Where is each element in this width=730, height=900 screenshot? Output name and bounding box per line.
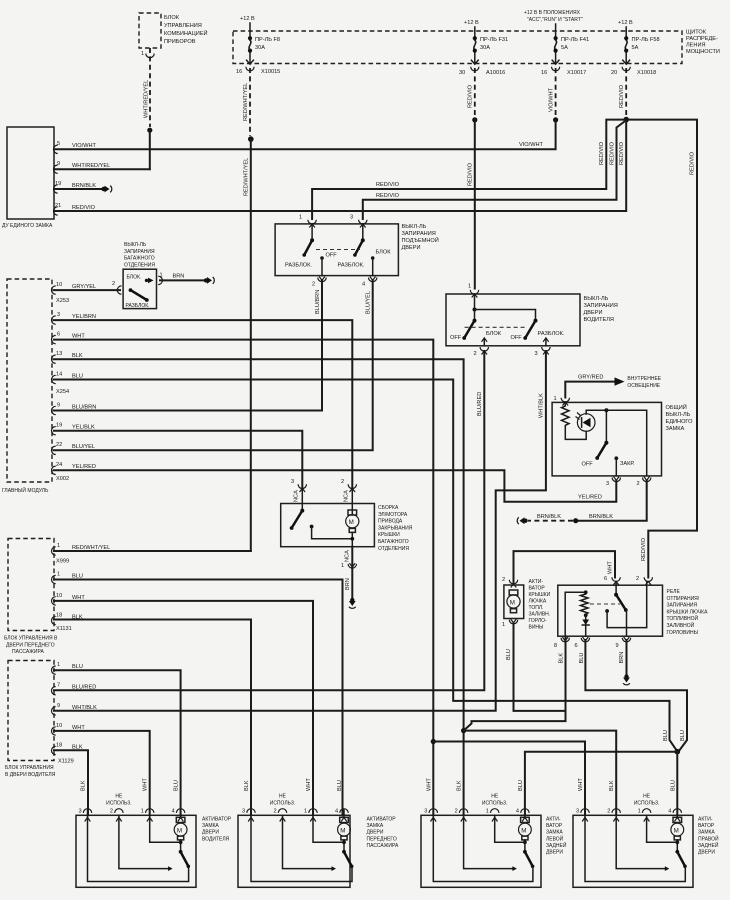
svg-text:ЗАПИРАНИЯ: ЗАПИРАНИЯ bbox=[402, 231, 436, 237]
trunk lock switch blade bbox=[126, 288, 150, 309]
svg-text:3: 3 bbox=[291, 479, 294, 485]
svg-text:РАЗБЛОК.: РАЗБЛОК. bbox=[538, 331, 565, 337]
driver door lock actuator box bbox=[76, 815, 232, 887]
svg-text:ДВЕРИ: ДВЕРИ bbox=[546, 850, 563, 856]
svg-text:1: 1 bbox=[299, 215, 302, 221]
wire BLK X1131 pin 18 to front passenger actuator pin 3 bbox=[54, 620, 251, 816]
svg-text:ОТДЕЛЕНИЯ: ОТДЕЛЕНИЯ bbox=[378, 546, 409, 552]
svg-text:BLU: BLU bbox=[174, 780, 180, 791]
svg-text:ЕДИНОГО: ЕДИНОГО bbox=[666, 419, 694, 425]
svg-text:3: 3 bbox=[57, 312, 60, 318]
svg-text:NCA: NCA bbox=[345, 550, 351, 562]
main module box (dashed) bbox=[2, 279, 52, 494]
svg-text:VIO/WHT: VIO/WHT bbox=[548, 87, 554, 112]
svg-text:ИСПОЛЬЗ.: ИСПОЛЬЗ. bbox=[106, 800, 132, 806]
svg-text:ВАТОР: ВАТОР bbox=[529, 586, 546, 592]
wire RED/VIO dashed feed from X10018 bbox=[619, 68, 626, 117]
svg-text:ДВЕРИ: ДВЕРИ bbox=[584, 310, 603, 316]
X1129 pin 7 BLU/RED bbox=[51, 683, 96, 695]
instrument cluster control module (dashed box) bbox=[139, 13, 208, 48]
driver switch RAZBLOK contact bbox=[538, 331, 565, 346]
svg-text:РАЗБЛОК.: РАЗБЛОК. bbox=[285, 263, 312, 269]
trunk assembly motor bbox=[346, 510, 359, 547]
node BLU junction bbox=[675, 749, 681, 755]
svg-text:9: 9 bbox=[57, 161, 60, 167]
svg-text:3: 3 bbox=[535, 351, 538, 357]
relay diode bbox=[582, 615, 589, 636]
relay coil bbox=[565, 590, 588, 636]
driver switch pin 2 bbox=[474, 347, 489, 357]
svg-text:ЗАЛИВНОЙ: ЗАЛИВНОЙ bbox=[667, 621, 695, 629]
wire GRY/RED from master switch pin 1 to interior lighting bbox=[565, 375, 662, 398]
front passenger door lock actuator motor bbox=[338, 815, 351, 852]
svg-text:ПАССАЖИРА: ПАССАЖИРА bbox=[12, 649, 44, 655]
svg-text:BLU: BLU bbox=[663, 730, 669, 741]
svg-text:BLU: BLU bbox=[72, 664, 83, 670]
relay pin 9 (bottom BRN) bbox=[616, 637, 631, 664]
driver switch mechanical link (dashed) bbox=[465, 326, 527, 328]
svg-text:RED/WHT/YEL: RED/WHT/YEL bbox=[244, 158, 250, 196]
front passenger door lock actuator switch blade bbox=[342, 850, 353, 868]
front passenger door lock actuator pin 3 bbox=[242, 780, 255, 821]
svg-text:ВЫКЛ-ЛЬ: ВЫКЛ-ЛЬ bbox=[402, 224, 427, 230]
svg-text:9: 9 bbox=[616, 643, 619, 649]
svg-text:КРЫШКИ ЛЮЧКА: КРЫШКИ ЛЮЧКА bbox=[667, 609, 709, 615]
driver door lock actuator pin 2 bbox=[110, 809, 123, 822]
svg-text:RED/VIO: RED/VIO bbox=[619, 84, 625, 108]
main module pin 14 BLU bbox=[51, 372, 82, 384]
X999 pin 1 RED/WHT/YEL bbox=[51, 543, 250, 565]
node BRN/BLK splice bbox=[573, 518, 578, 523]
left rear door lock actuator internal wire pin 2 open contact bbox=[464, 815, 517, 871]
right rear door lock actuator box bbox=[573, 815, 719, 887]
ground at DU pin 19 bbox=[101, 186, 112, 193]
connector A10016 pin 30 bbox=[459, 60, 505, 76]
svg-text:1: 1 bbox=[141, 809, 144, 815]
svg-text:WHT: WHT bbox=[143, 778, 149, 791]
svg-text:16: 16 bbox=[236, 69, 242, 75]
svg-text:БЛОК.: БЛОК. bbox=[127, 275, 142, 281]
wire WHT branch to right rear actuator pin 3 bbox=[433, 742, 585, 816]
svg-text:BLK: BLK bbox=[81, 780, 87, 791]
wire GRY/YEL main module pin 10 to trunk lock switch pin 2 bbox=[54, 289, 120, 291]
svg-text:+12 В: +12 В bbox=[464, 20, 479, 26]
svg-text:ПРИБОРОВ: ПРИБОРОВ bbox=[164, 39, 196, 45]
svg-text:BRN: BRN bbox=[345, 578, 351, 590]
svg-text:ДВЕРИ ПЕРЕДНЕГО: ДВЕРИ ПЕРЕДНЕГО bbox=[6, 642, 55, 648]
svg-text:НЕ: НЕ bbox=[643, 794, 651, 800]
svg-text:6: 6 bbox=[57, 332, 60, 338]
svg-text:3: 3 bbox=[606, 481, 609, 487]
svg-text:УПРАВЛЕНИЯ: УПРАВЛЕНИЯ bbox=[164, 23, 202, 29]
wire BLK main pin 13 to rear actuators pin 2 bbox=[54, 359, 464, 815]
wire BLU X1129 pin 1 to driver actuator pin 4 bbox=[54, 670, 181, 815]
wire YEL/BRN main pin 3 to trunk actuator pin 2 bbox=[54, 320, 352, 487]
fuel filler door release relay box bbox=[558, 585, 708, 636]
svg-text:BRN: BRN bbox=[619, 652, 625, 664]
svg-text:BLK: BLK bbox=[72, 353, 83, 359]
svg-text:BLU/BRN: BLU/BRN bbox=[72, 405, 96, 411]
svg-text:GRY/RED: GRY/RED bbox=[578, 375, 603, 381]
svg-text:M: M bbox=[177, 827, 182, 834]
wire RED/WHT/YEL solid feed down to X999 pin 1 bbox=[244, 139, 251, 551]
wire WHT/BLK X1129 pin 9 to driver's door switch pin 3 bbox=[54, 351, 546, 711]
pin 1 of instrument cluster bbox=[141, 51, 154, 58]
svg-text:7: 7 bbox=[57, 683, 60, 689]
svg-text:6: 6 bbox=[604, 576, 607, 582]
fuel actuator motor bbox=[507, 590, 520, 613]
svg-text:RED/VIO: RED/VIO bbox=[376, 193, 400, 199]
svg-text:ВАТОР: ВАТОР bbox=[546, 823, 563, 829]
wire WHT X1131 pin 10 to front passenger actuator pin 1 bbox=[54, 601, 313, 815]
svg-text:Х999: Х999 bbox=[56, 559, 69, 565]
svg-text:АКТИ-: АКТИ- bbox=[529, 579, 544, 585]
master switch LED wiring bbox=[565, 410, 646, 476]
svg-text:РАЗБЛОК.: РАЗБЛОК. bbox=[126, 303, 150, 309]
main module pin 3 YEL/BRN bbox=[52, 312, 96, 324]
svg-text:BLU/YEL: BLU/YEL bbox=[366, 291, 372, 314]
svg-text:18: 18 bbox=[56, 613, 62, 619]
svg-text:5А: 5А bbox=[632, 45, 639, 51]
liftgate switch pin 2 bbox=[312, 277, 326, 288]
driver switch blade right bbox=[511, 319, 538, 341]
svg-text:19: 19 bbox=[56, 423, 62, 429]
right rear door lock actuator pin 4 bbox=[668, 780, 681, 821]
main module pin 13 BLK bbox=[52, 351, 83, 363]
wire BRN relay pin 9 to ground bbox=[626, 640, 628, 674]
liftgate switch blade 1 bbox=[302, 238, 314, 256]
wire YEL/RED main pin 24 to master switch pin 3 bbox=[54, 470, 616, 502]
front passenger door control module box (dashed) bbox=[4, 539, 58, 656]
+12V feed label F58 bbox=[618, 20, 633, 31]
svg-text:30А: 30А bbox=[255, 45, 265, 51]
svg-text:BRN/BLK: BRN/BLK bbox=[589, 514, 613, 520]
svg-text:3: 3 bbox=[350, 215, 353, 221]
X1131 pin 18 BLK bbox=[51, 613, 82, 625]
wire BLK branch to right rear actuator pin 2 bbox=[464, 731, 617, 816]
svg-text:ЗАПИРАНИЯ: ЗАПИРАНИЯ bbox=[667, 603, 698, 609]
front passenger door lock actuator pin 4 bbox=[335, 780, 348, 821]
svg-text:OFF: OFF bbox=[326, 253, 338, 259]
left rear door lock actuator pin 2 bbox=[455, 780, 468, 821]
svg-text:ГОРЛО-: ГОРЛО- bbox=[529, 618, 548, 624]
liftgate switch pin 4 bbox=[362, 277, 377, 288]
wire BRN/BLK dashed to ground bbox=[528, 514, 573, 521]
svg-text:1: 1 bbox=[486, 809, 489, 815]
connector X10015 pin 16 bbox=[236, 60, 280, 75]
svg-text:BLU: BLU bbox=[337, 780, 343, 791]
relay pin 2 (top) bbox=[636, 576, 653, 585]
DU pin 9 WHT/RED/YEL bbox=[54, 161, 150, 173]
svg-text:КОМБИНАЦИЕЙ: КОМБИНАЦИЕЙ bbox=[164, 29, 208, 37]
svg-text:BLK: BLK bbox=[244, 780, 250, 791]
svg-text:WHT: WHT bbox=[306, 778, 312, 791]
svg-text:1: 1 bbox=[141, 51, 144, 57]
svg-text:BLU: BLU bbox=[506, 649, 512, 660]
svg-text:18: 18 bbox=[56, 743, 62, 749]
svg-text:RED/VIO: RED/VIO bbox=[72, 205, 96, 211]
svg-text:ЩИТОК: ЩИТОК bbox=[686, 30, 707, 36]
svg-text:BLK: BLK bbox=[609, 780, 615, 791]
left rear door lock actuator pin 4 bbox=[516, 780, 529, 821]
svg-text:4: 4 bbox=[516, 809, 519, 815]
svg-text:4: 4 bbox=[335, 809, 338, 815]
driver door lock actuator internal wire pin 1 to motor bbox=[150, 815, 181, 842]
left rear door lock actuator unused pin label bbox=[482, 794, 508, 807]
svg-text:30А: 30А bbox=[480, 45, 490, 51]
svg-text:ВИНЫ: ВИНЫ bbox=[529, 625, 545, 631]
svg-text:ОСВЕЩЕНИЕ: ОСВЕЩЕНИЕ bbox=[627, 383, 660, 389]
svg-text:2: 2 bbox=[274, 809, 277, 815]
wire WHT fuel actuator pin 2 to relay pin 6 bbox=[514, 551, 616, 584]
driver switch pin 1 bbox=[468, 284, 479, 310]
svg-text:M: M bbox=[349, 519, 354, 526]
svg-text:10: 10 bbox=[56, 723, 62, 729]
svg-text:Х10015: Х10015 bbox=[261, 69, 280, 75]
front passenger door lock actuator box bbox=[238, 815, 399, 887]
svg-text:9: 9 bbox=[57, 403, 60, 409]
wire BRN/BLK from master switch pin 2 bbox=[576, 480, 647, 520]
svg-text:GRY/YEL: GRY/YEL bbox=[72, 284, 96, 290]
svg-text:M: M bbox=[510, 599, 515, 606]
master switch blade bbox=[582, 408, 609, 467]
node BLK junction bbox=[461, 728, 466, 733]
svg-text:ВЫКЛ-ЛЬ: ВЫКЛ-ЛЬ bbox=[124, 242, 147, 248]
svg-text:БАГАЖНОГО: БАГАЖНОГО bbox=[124, 256, 155, 262]
svg-text:5: 5 bbox=[57, 141, 60, 147]
svg-text:OFF: OFF bbox=[511, 335, 523, 341]
liftgate switch BLOK contact bbox=[371, 250, 391, 276]
ground at BRN/BLK bbox=[517, 517, 528, 524]
node splice junction RED/VIO F58 bbox=[623, 117, 629, 123]
wire RED/VIO from DU pin 21 to F58 column bbox=[54, 120, 626, 211]
right rear door lock actuator motor bbox=[671, 815, 684, 852]
svg-text:ЗАМКА: ЗАМКА bbox=[202, 823, 219, 829]
front passenger door lock actuator pin 2 bbox=[274, 809, 287, 822]
left rear door lock actuator internal wire pin 1 to motor bbox=[495, 815, 525, 842]
svg-text:ОТДЕЛЕНИЯ: ОТДЕЛЕНИЯ bbox=[124, 262, 155, 268]
wire YEL/BLK main pin 19 to trunk actuator pin 3 bbox=[54, 431, 302, 487]
svg-text:ЗАКР.: ЗАКР. bbox=[620, 461, 635, 467]
ground below trunk assembly bbox=[349, 598, 356, 609]
liftgate switch OFF contact bbox=[320, 253, 337, 276]
wire BLU/YEL liftgate pin 4 to main module pin 22 bbox=[54, 280, 373, 450]
remote control unit DU box bbox=[2, 127, 54, 229]
fuse F41 5A bbox=[554, 31, 590, 64]
driver door lock actuator internal wire contact to pin 3 bbox=[88, 815, 189, 881]
X1131 pin 10 WHT bbox=[52, 593, 86, 605]
wire BLK branch to fuel door relay bbox=[464, 636, 566, 730]
svg-text:"АСС","RUN" И "START": "АСС","RUN" И "START" bbox=[527, 17, 583, 23]
front passenger door lock actuator pin 1 bbox=[304, 778, 317, 822]
svg-text:OFF: OFF bbox=[582, 462, 594, 468]
svg-text:BLU/YEL: BLU/YEL bbox=[72, 444, 95, 450]
svg-text:НЕ: НЕ bbox=[279, 794, 287, 800]
svg-text:NCA: NCA bbox=[294, 490, 300, 502]
svg-text:ЛЕВОЙ: ЛЕВОЙ bbox=[546, 834, 564, 842]
wire BLU/BRN liftgate pin 2 to main module pin 9 bbox=[54, 280, 322, 411]
svg-text:19: 19 bbox=[55, 181, 61, 187]
svg-text:Х10018: Х10018 bbox=[637, 70, 656, 76]
main module pin 10 GRY/YEL bbox=[52, 282, 97, 294]
master switch pin 2 bbox=[637, 477, 651, 488]
svg-text:8: 8 bbox=[554, 643, 557, 649]
trunk lock switch pin 1 bbox=[158, 273, 162, 285]
svg-text:2: 2 bbox=[502, 577, 505, 583]
node WHT junction bbox=[431, 739, 436, 744]
wire BLU/RED X1129 pin 7 to driver's door switch pin 2 bbox=[54, 351, 484, 690]
front passenger door lock actuator internal wire pin 2 open contact bbox=[283, 815, 337, 871]
driver switch blade left bbox=[450, 319, 477, 341]
svg-text:RED/VIO: RED/VIO bbox=[468, 84, 474, 108]
svg-text:ВОДИТЕЛЯ: ВОДИТЕЛЯ bbox=[584, 317, 614, 323]
svg-text:Х254: Х254 bbox=[56, 389, 69, 395]
svg-text:АКТИ-: АКТИ- bbox=[698, 817, 713, 823]
svg-text:NCA: NCA bbox=[344, 490, 350, 502]
svg-text:НЕ: НЕ bbox=[491, 794, 499, 800]
svg-text:ПРИВОДА: ПРИВОДА bbox=[378, 519, 403, 525]
front passenger door lock actuator internal wire contact to pin 3 bbox=[251, 815, 352, 881]
svg-text:ВЫКЛ-ЛЬ: ВЫКЛ-ЛЬ bbox=[666, 412, 691, 418]
svg-text:В ДВЕРИ ВОДИТЕЛЯ: В ДВЕРИ ВОДИТЕЛЯ bbox=[5, 772, 56, 778]
svg-text:1: 1 bbox=[554, 396, 557, 402]
svg-text:1: 1 bbox=[468, 284, 471, 290]
X1129 pin 1 BLU bbox=[51, 662, 82, 674]
svg-text:ДВЕРИ: ДВЕРИ bbox=[698, 850, 715, 856]
+12V feed label F8 bbox=[240, 16, 255, 31]
svg-text:3: 3 bbox=[576, 809, 579, 815]
relay switch blade bbox=[614, 582, 628, 637]
svg-text:3: 3 bbox=[242, 809, 245, 815]
svg-text:9: 9 bbox=[57, 703, 60, 709]
trunk assembly switch blade bbox=[290, 509, 305, 530]
liftgate switch blade 2 bbox=[353, 238, 365, 256]
left rear door lock actuator motor bbox=[519, 815, 532, 852]
svg-text:Х002: Х002 bbox=[56, 476, 69, 482]
fuse F31 30A bbox=[473, 31, 508, 64]
svg-text:ОТПИРАНИЯ/: ОТПИРАНИЯ/ bbox=[667, 596, 700, 602]
DU pin 5 VIO/WHT bbox=[54, 141, 97, 154]
right rear door lock actuator internal wire pin 1 to motor bbox=[647, 815, 678, 842]
trunk assembly switch contact bbox=[310, 525, 353, 539]
wire BLU fuel actuator pin 1 to relay pin 8 column bbox=[506, 623, 566, 711]
main module pin 24 YEL/RED bbox=[52, 462, 96, 475]
main module pin 22 BLU/YEL bbox=[52, 442, 96, 455]
right rear door lock actuator internal wire contact to pin 3 bbox=[585, 815, 685, 881]
svg-text:1: 1 bbox=[57, 662, 60, 668]
svg-text:ИСПОЛЬЗ.: ИСПОЛЬЗ. bbox=[482, 800, 508, 806]
svg-text:30: 30 bbox=[459, 70, 465, 76]
liftgate switch pin 3 bbox=[350, 215, 367, 241]
svg-text:ЗАМКА: ЗАМКА bbox=[367, 823, 384, 829]
svg-text:OFF: OFF bbox=[450, 335, 462, 341]
svg-text:КРЫШКИ: КРЫШКИ bbox=[529, 592, 551, 598]
svg-text:2: 2 bbox=[110, 809, 113, 815]
ground below relay bbox=[623, 674, 630, 685]
svg-text:ИСПОЛЬЗ.: ИСПОЛЬЗ. bbox=[270, 800, 296, 806]
svg-text:+12 В: +12 В bbox=[618, 20, 633, 26]
wire VIO/WHT from F41 down then left to DU pin 5 bbox=[54, 120, 556, 149]
svg-text:M: M bbox=[521, 827, 526, 834]
svg-text:2: 2 bbox=[607, 809, 610, 815]
svg-text:3: 3 bbox=[424, 809, 427, 815]
svg-text:YEL/RED: YEL/RED bbox=[578, 495, 602, 501]
svg-text:Х1131: Х1131 bbox=[56, 626, 72, 632]
DU pin 19 BRN/BLK wire bbox=[54, 181, 103, 193]
wire WHT main pin 6 to rear actuators pin 3 bbox=[54, 340, 433, 816]
svg-text:22: 22 bbox=[56, 442, 62, 448]
wire BRN trunk assembly pin 1 to ground bbox=[345, 547, 353, 598]
svg-text:+12 В В ПОЛОЖЕНИЯХ: +12 В В ПОЛОЖЕНИЯХ bbox=[524, 10, 581, 16]
svg-text:RED/VIO: RED/VIO bbox=[619, 141, 625, 165]
svg-text:ЛЕНИЯ: ЛЕНИЯ bbox=[686, 43, 706, 49]
+12V feed label F31 bbox=[464, 20, 479, 31]
wire RED/VIO branch right to relay pin 2 bbox=[626, 120, 697, 578]
trunk assembly pin 2 bbox=[341, 479, 357, 514]
trunk lock switch label bbox=[124, 242, 155, 268]
driver door control module box (dashed) bbox=[5, 661, 56, 779]
liftgate switch pin 1 bbox=[299, 215, 316, 241]
node splice RED/VIO F31 bbox=[472, 117, 477, 122]
svg-text:BLK: BLK bbox=[457, 780, 463, 791]
right rear door lock actuator pin 1 bbox=[638, 809, 651, 822]
wire BLU X1131 pin 1 to front passenger actuator pin 4 bbox=[54, 580, 343, 816]
node splice dot WHT/RED/YEL bbox=[147, 128, 152, 133]
fuel actuator pin 2 bbox=[502, 577, 518, 588]
connector X10017 pin 16 bbox=[541, 60, 586, 76]
svg-text:16: 16 bbox=[541, 70, 547, 76]
svg-text:Х10017: Х10017 bbox=[567, 70, 586, 76]
svg-text:RED/VIO: RED/VIO bbox=[468, 162, 474, 186]
svg-text:M: M bbox=[674, 827, 679, 834]
svg-text:1: 1 bbox=[57, 543, 60, 549]
svg-text:BLU/BRN: BLU/BRN bbox=[315, 290, 321, 314]
svg-text:VIO/WHT: VIO/WHT bbox=[519, 142, 544, 148]
wire WHT/RED/YEL from instrument cluster (dashed) bbox=[144, 48, 151, 127]
svg-text:20: 20 bbox=[611, 70, 617, 76]
svg-text:АКТИВАТОР: АКТИВАТОР bbox=[367, 817, 397, 823]
svg-text:БАГАЖНОГО: БАГАЖНОГО bbox=[378, 539, 409, 545]
svg-text:2: 2 bbox=[341, 479, 344, 485]
svg-text:2: 2 bbox=[312, 282, 315, 288]
svg-text:МОЩНОСТИ: МОЩНОСТИ bbox=[686, 49, 720, 55]
svg-text:3: 3 bbox=[79, 809, 82, 815]
resistor in master switch bbox=[562, 402, 570, 427]
svg-text:ВНУТРЕННЕЕ: ВНУТРЕННЕЕ bbox=[627, 376, 661, 382]
trunk lock switch pin 2 bbox=[112, 281, 122, 294]
node splice RED/WHT/YEL bbox=[248, 136, 254, 142]
svg-text:21: 21 bbox=[55, 203, 61, 209]
wire BLK X1129 pin 18 to driver actuator pin 3 bbox=[54, 750, 88, 815]
+12V ACC RUN START feed label F41 bbox=[524, 10, 583, 31]
trunk lock switch BLOK contact and arrow bbox=[127, 275, 154, 284]
svg-text:ТОПЛИВНОЙ: ТОПЛИВНОЙ bbox=[667, 614, 699, 622]
svg-text:ВЫКЛ-ЛЬ: ВЫКЛ-ЛЬ bbox=[584, 296, 609, 302]
svg-text:1: 1 bbox=[57, 572, 60, 578]
fuse F58 5A bbox=[624, 31, 660, 64]
wire BLU junction to left rear actuator pin 4 bbox=[525, 752, 677, 816]
svg-text:ПАССАЖИРА: ПАССАЖИРА bbox=[367, 843, 399, 849]
right rear door lock actuator pin 3 bbox=[576, 778, 589, 822]
svg-text:BRN/BLK: BRN/BLK bbox=[537, 514, 561, 520]
svg-text:RED/VIO: RED/VIO bbox=[376, 182, 400, 188]
svg-text:ТОПЛ.: ТОПЛ. bbox=[529, 605, 544, 611]
svg-text:Х1129: Х1129 bbox=[58, 759, 74, 765]
left rear door lock actuator internal wire contact to pin 3 bbox=[433, 815, 533, 881]
svg-text:ПОДЪЕМНОЙ: ПОДЪЕМНОЙ bbox=[402, 236, 439, 244]
svg-text:2: 2 bbox=[636, 576, 639, 582]
svg-text:2: 2 bbox=[455, 809, 458, 815]
